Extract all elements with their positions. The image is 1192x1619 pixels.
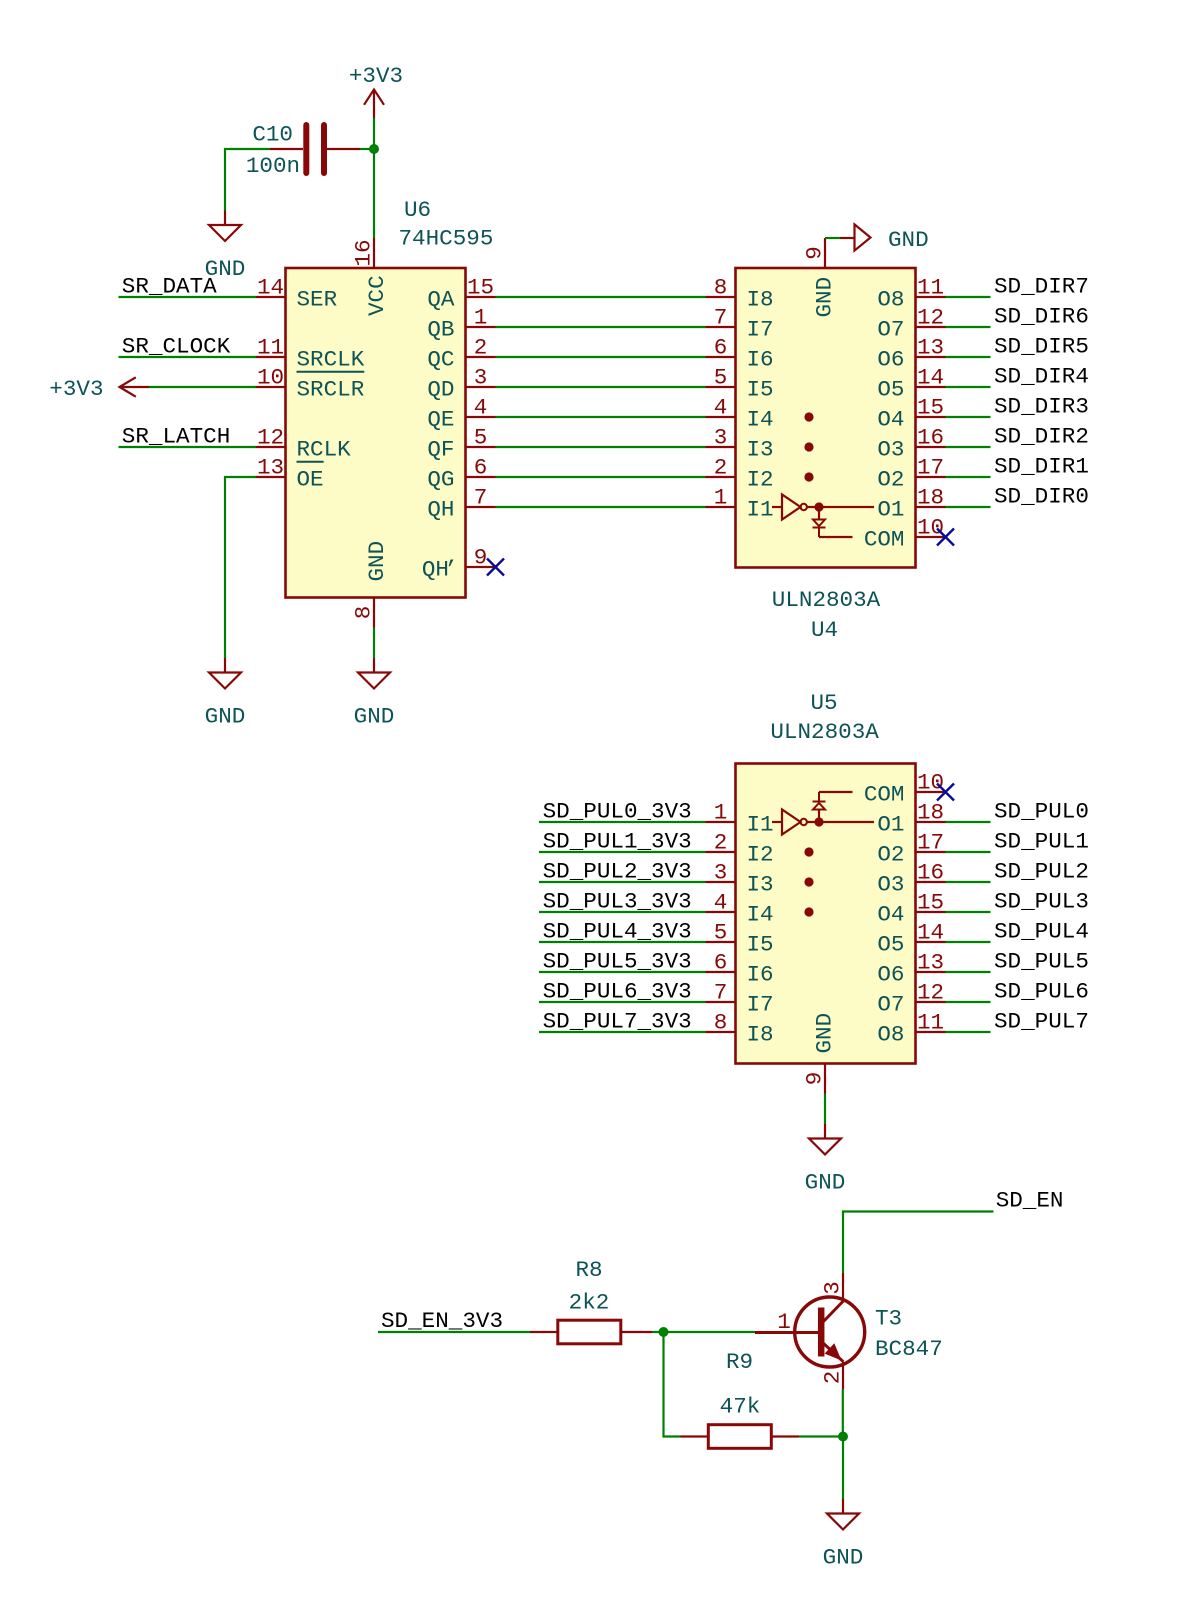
svg-text:15: 15 bbox=[917, 395, 944, 421]
svg-text:QB: QB bbox=[427, 317, 454, 343]
junction +3V3/C10 bbox=[369, 144, 379, 154]
wire SD_PUL3_3V3 bbox=[539, 911, 706, 913]
svg-text:13: 13 bbox=[917, 950, 944, 976]
svg-text:8: 8 bbox=[714, 1010, 728, 1036]
svg-text:ULN2803A: ULN2803A bbox=[770, 719, 879, 745]
wire QE to U4 I4 bbox=[496, 416, 706, 418]
svg-text:O5: O5 bbox=[877, 932, 904, 958]
svg-text:I5: I5 bbox=[747, 377, 774, 403]
wire SD_PUL0_3V3 bbox=[539, 821, 706, 823]
svg-text:I8: I8 bbox=[747, 287, 774, 313]
U5 pin 16 O3 bbox=[877, 860, 945, 898]
svg-text:SER: SER bbox=[297, 287, 338, 313]
svg-text:5: 5 bbox=[714, 920, 728, 946]
svg-text:18: 18 bbox=[917, 485, 944, 511]
wire SD_PUL6_3V3 bbox=[539, 1001, 706, 1003]
power +3V3 (SRCLR) bbox=[49, 376, 149, 402]
svg-text:O4: O4 bbox=[877, 902, 904, 928]
svg-text:OE: OE bbox=[297, 467, 324, 493]
wire QH to U4 I1 bbox=[496, 506, 706, 508]
svg-text:SRCLK: SRCLK bbox=[297, 347, 365, 373]
svg-text:6: 6 bbox=[714, 335, 728, 361]
svg-text:SD_PUL5: SD_PUL5 bbox=[994, 949, 1089, 975]
svg-text:O8: O8 bbox=[877, 287, 904, 313]
U4 driver symbol (inverter with diode) bbox=[772, 495, 874, 538]
svg-text:18: 18 bbox=[917, 800, 944, 826]
svg-text:5: 5 bbox=[474, 425, 488, 451]
svg-text:I2: I2 bbox=[747, 842, 774, 868]
svg-text:SD_DIR5: SD_DIR5 bbox=[994, 334, 1089, 360]
wire SRCLR to +3V3 bbox=[149, 386, 256, 388]
svg-text:QC: QC bbox=[427, 347, 454, 373]
U5 pin 13 O6 bbox=[877, 950, 945, 988]
svg-text:O1: O1 bbox=[877, 497, 904, 523]
svg-text:COM: COM bbox=[864, 782, 905, 808]
svg-text:SD_PUL4_3V3: SD_PUL4_3V3 bbox=[543, 919, 692, 945]
wire SD_PUL7_3V3 bbox=[539, 1031, 706, 1033]
svg-text:3: 3 bbox=[820, 1281, 846, 1295]
IC U6 74HC595 body bbox=[286, 268, 466, 598]
svg-text:14: 14 bbox=[917, 920, 944, 946]
svg-text:SD_PUL3_3V3: SD_PUL3_3V3 bbox=[543, 889, 692, 915]
wire SD_PUL2_3V3 bbox=[539, 881, 706, 883]
wire QC to U4 I6 bbox=[496, 356, 706, 358]
wire SD_PUL2 bbox=[946, 881, 991, 883]
svg-text:I1: I1 bbox=[747, 497, 774, 523]
wire SD_DIR2 bbox=[946, 446, 991, 448]
U5 pin 15 O4 bbox=[877, 890, 945, 928]
svg-text:GND: GND bbox=[812, 1013, 838, 1054]
svg-text:8: 8 bbox=[714, 275, 728, 301]
svg-text:8: 8 bbox=[351, 606, 377, 620]
svg-text:12: 12 bbox=[257, 425, 284, 451]
wire SD_DIR1 bbox=[946, 476, 991, 478]
svg-text:16: 16 bbox=[351, 239, 377, 266]
svg-text:QG: QG bbox=[427, 467, 454, 493]
wire SD_DIR4 bbox=[946, 386, 991, 388]
U6 pin 5 QF bbox=[427, 425, 495, 463]
svg-text:SD_PUL0_3V3: SD_PUL0_3V3 bbox=[543, 799, 692, 825]
U4 pin 3 I3 bbox=[706, 425, 774, 463]
U5 pin 11 O8 bbox=[877, 1010, 945, 1048]
svg-text:2k2: 2k2 bbox=[569, 1290, 610, 1316]
svg-text:SR_DATA: SR_DATA bbox=[122, 274, 217, 300]
U5 pin 18 O1 bbox=[877, 800, 945, 838]
svg-text:47k: 47k bbox=[720, 1394, 761, 1420]
svg-text:I4: I4 bbox=[747, 902, 774, 928]
wire +3V3 vertical to U6 VCC bbox=[373, 118, 375, 238]
U4 pin 16 O3 bbox=[877, 425, 945, 463]
U4 pin 4 I4 bbox=[706, 395, 774, 433]
svg-text:SD_PUL6: SD_PUL6 bbox=[994, 979, 1089, 1005]
U4 pin 13 O6 bbox=[877, 335, 945, 373]
U6 pin 13 OE bbox=[256, 455, 324, 493]
svg-text:11: 11 bbox=[257, 335, 284, 361]
svg-text:SRCLR: SRCLR bbox=[297, 377, 365, 403]
svg-text:9: 9 bbox=[802, 246, 828, 260]
U4 pin 1 I1 bbox=[706, 485, 774, 523]
svg-text:12: 12 bbox=[917, 980, 944, 1006]
U4 pin 5 I5 bbox=[706, 365, 774, 403]
svg-text:O3: O3 bbox=[877, 437, 904, 463]
svg-text:10: 10 bbox=[917, 515, 944, 541]
U6 pin 7 QH bbox=[427, 485, 495, 523]
svg-text:O6: O6 bbox=[877, 347, 904, 373]
svg-text:6: 6 bbox=[474, 455, 488, 481]
U5 pin 12 O7 bbox=[877, 980, 945, 1018]
U6 pin 10 SRCLR bbox=[256, 365, 365, 403]
wire junction to GND bbox=[842, 1437, 844, 1500]
svg-text:2: 2 bbox=[474, 335, 488, 361]
svg-text:11: 11 bbox=[917, 275, 944, 301]
U5 pin 5 I5 bbox=[706, 920, 774, 958]
U4 pin 9 GND bbox=[802, 238, 828, 268]
wire SD_EN_3V3 to R8 bbox=[378, 1331, 530, 1333]
U5 pin 4 I4 bbox=[706, 890, 774, 928]
svg-text:14: 14 bbox=[257, 275, 284, 301]
svg-text:I1: I1 bbox=[747, 812, 774, 838]
power +3V3 (top) bbox=[349, 63, 403, 118]
wire C10 right to +3V3 bbox=[360, 148, 374, 150]
ground U5 pin 9 bbox=[805, 1124, 846, 1196]
svg-text:I4: I4 bbox=[747, 407, 774, 433]
wire SD_PUL7 bbox=[946, 1031, 991, 1033]
U6 pin 16 VCC bbox=[351, 238, 377, 268]
U5 pin 10 COM bbox=[864, 770, 946, 808]
U4 pin 18 O1 bbox=[877, 485, 945, 523]
svg-text:SD_DIR2: SD_DIR2 bbox=[994, 424, 1089, 450]
svg-text:U5: U5 bbox=[810, 690, 837, 716]
svg-text:15: 15 bbox=[467, 275, 494, 301]
svg-text:U6: U6 bbox=[404, 197, 431, 223]
svg-text:SD_EN_3V3: SD_EN_3V3 bbox=[381, 1308, 503, 1334]
wire SD_PUL0 bbox=[946, 821, 991, 823]
wire SD_DIR6 bbox=[946, 326, 991, 328]
wire QG to U4 I2 bbox=[496, 476, 706, 478]
U6 pin 15 QA bbox=[427, 275, 495, 313]
svg-text:COM: COM bbox=[864, 527, 905, 553]
wire SD_PUL6 bbox=[946, 1001, 991, 1003]
svg-text:17: 17 bbox=[917, 830, 944, 856]
U5 pin 3 I3 bbox=[706, 860, 774, 898]
U6 pin 9 QH' bbox=[422, 545, 496, 583]
U5 pin 14 O5 bbox=[877, 920, 945, 958]
U5 pin 8 I8 bbox=[706, 1010, 774, 1048]
svg-text:9: 9 bbox=[802, 1072, 828, 1086]
resistor R9 bbox=[681, 1425, 800, 1449]
U5 pin 9 GND bbox=[802, 1064, 828, 1094]
svg-text:1: 1 bbox=[474, 305, 488, 331]
wire SD_PUL5_3V3 bbox=[539, 971, 706, 973]
ground U6 pin 8 bbox=[354, 658, 395, 730]
wire emitter to junction bbox=[842, 1390, 844, 1437]
U6 pin 2 QC bbox=[427, 335, 495, 373]
svg-text:QH: QH bbox=[427, 497, 454, 523]
svg-text:R9: R9 bbox=[726, 1349, 753, 1375]
IC U4 ULN2803A body bbox=[736, 268, 916, 568]
svg-text:4: 4 bbox=[714, 890, 728, 916]
svg-text:SD_PUL5_3V3: SD_PUL5_3V3 bbox=[543, 949, 692, 975]
svg-text:I7: I7 bbox=[747, 992, 774, 1018]
wire SR_CLOCK bbox=[119, 356, 257, 358]
U4 pin 14 O5 bbox=[877, 365, 945, 403]
junction R8/R9 bbox=[659, 1327, 669, 1337]
wire R8 to T3 base bbox=[652, 1331, 755, 1333]
svg-text:74HC595: 74HC595 bbox=[399, 226, 494, 252]
ground T3 emitter bbox=[823, 1499, 864, 1571]
wire U4 pin 9 to GND flag bbox=[825, 237, 840, 239]
svg-text:1: 1 bbox=[777, 1309, 791, 1335]
wire QD to U4 I5 bbox=[496, 386, 706, 388]
svg-text:U4: U4 bbox=[811, 617, 838, 643]
wire SD_PUL3 bbox=[946, 911, 991, 913]
resistor R8 bbox=[530, 1320, 652, 1344]
svg-text:16: 16 bbox=[917, 860, 944, 886]
svg-text:SD_DIR3: SD_DIR3 bbox=[994, 394, 1089, 420]
svg-text:GND: GND bbox=[823, 1545, 864, 1571]
wire SD_DIR0 bbox=[946, 506, 991, 508]
wire QA to U4 I8 bbox=[496, 296, 706, 298]
svg-text:16: 16 bbox=[917, 425, 944, 451]
svg-text:13: 13 bbox=[917, 335, 944, 361]
svg-text:+3V3: +3V3 bbox=[49, 376, 103, 402]
wire C10 left to GND bbox=[225, 149, 270, 211]
U5 ellipsis dots bbox=[804, 847, 813, 916]
svg-text:GND: GND bbox=[364, 541, 390, 582]
svg-text:O2: O2 bbox=[877, 842, 904, 868]
svg-text:SD_DIR4: SD_DIR4 bbox=[994, 364, 1089, 390]
svg-text:4: 4 bbox=[714, 395, 728, 421]
svg-text:5: 5 bbox=[714, 365, 728, 391]
U4 pin 10 COM bbox=[864, 515, 946, 553]
U6 pin 1 QB bbox=[427, 305, 495, 343]
wire SD_DIR7 bbox=[946, 296, 991, 298]
svg-text:O5: O5 bbox=[877, 377, 904, 403]
svg-text:3: 3 bbox=[714, 860, 728, 886]
svg-text:7: 7 bbox=[474, 485, 488, 511]
svg-text:SD_DIR6: SD_DIR6 bbox=[994, 304, 1089, 330]
svg-text:6: 6 bbox=[714, 950, 728, 976]
U4 pin 6 I6 bbox=[706, 335, 774, 373]
svg-text:14: 14 bbox=[917, 365, 944, 391]
svg-text:SD_PUL0: SD_PUL0 bbox=[994, 799, 1089, 825]
transistor T3 BC847 bbox=[755, 1273, 865, 1390]
ground OE bbox=[205, 658, 246, 730]
IC U5 ULN2803A body bbox=[736, 764, 916, 1064]
svg-text:4: 4 bbox=[474, 395, 488, 421]
svg-text:RCLK: RCLK bbox=[297, 437, 352, 463]
svg-text:O1: O1 bbox=[877, 812, 904, 838]
svg-text:SD_PUL1_3V3: SD_PUL1_3V3 bbox=[543, 829, 692, 855]
svg-text:C10: C10 bbox=[252, 122, 293, 148]
svg-text:15: 15 bbox=[917, 890, 944, 916]
wire R9 to emitter node bbox=[799, 1435, 843, 1437]
svg-text:SR_CLOCK: SR_CLOCK bbox=[122, 334, 231, 360]
svg-text:QA: QA bbox=[427, 287, 455, 313]
svg-text:I6: I6 bbox=[747, 962, 774, 988]
U6 pin 8 GND bbox=[351, 598, 377, 628]
svg-text:1: 1 bbox=[714, 485, 728, 511]
U6 pin 11 SRCLK bbox=[256, 335, 365, 373]
U4 pin 8 I8 bbox=[706, 275, 774, 313]
svg-text:I3: I3 bbox=[747, 872, 774, 898]
svg-text:I8: I8 bbox=[747, 1022, 774, 1048]
svg-text:I5: I5 bbox=[747, 932, 774, 958]
svg-text:7: 7 bbox=[714, 980, 728, 1006]
svg-text:SD_DIR1: SD_DIR1 bbox=[994, 454, 1089, 480]
U5 pin 6 I6 bbox=[706, 950, 774, 988]
wire SD_DIR3 bbox=[946, 416, 991, 418]
svg-text:GND: GND bbox=[354, 704, 395, 730]
wire SD_PUL5 bbox=[946, 971, 991, 973]
wire QF to U4 I3 bbox=[496, 446, 706, 448]
svg-text:2: 2 bbox=[820, 1371, 846, 1385]
svg-text:GND: GND bbox=[812, 277, 838, 318]
svg-text:SD_PUL6_3V3: SD_PUL6_3V3 bbox=[543, 979, 692, 1005]
svg-text:100n: 100n bbox=[246, 153, 300, 179]
svg-text:O3: O3 bbox=[877, 872, 904, 898]
svg-text:13: 13 bbox=[257, 455, 284, 481]
wire junction down to R9 bbox=[664, 1332, 681, 1437]
no-connect U6 pin 9 bbox=[487, 559, 504, 576]
wire SD_PUL4 bbox=[946, 941, 991, 943]
svg-text:3: 3 bbox=[474, 365, 488, 391]
svg-text:BC847: BC847 bbox=[875, 1336, 943, 1362]
wire U5 pin 9 to GND bbox=[824, 1094, 826, 1125]
U4 pin 15 O4 bbox=[877, 395, 945, 433]
svg-text:SD_PUL7_3V3: SD_PUL7_3V3 bbox=[543, 1009, 692, 1035]
svg-text:SD_DIR0: SD_DIR0 bbox=[994, 484, 1089, 510]
svg-text:2: 2 bbox=[714, 830, 728, 856]
svg-text:SD_DIR7: SD_DIR7 bbox=[994, 274, 1089, 300]
wire SR_LATCH bbox=[119, 446, 257, 448]
wire SD_DIR5 bbox=[946, 356, 991, 358]
wire SR_DATA bbox=[119, 296, 257, 298]
no-connect U5 pin 10 bbox=[937, 784, 954, 801]
U5 pin 1 I1 bbox=[706, 800, 774, 838]
svg-text:SD_PUL3: SD_PUL3 bbox=[994, 889, 1089, 915]
svg-text:QF: QF bbox=[427, 437, 454, 463]
svg-text:O8: O8 bbox=[877, 1022, 904, 1048]
svg-text:7: 7 bbox=[714, 305, 728, 331]
svg-text:I3: I3 bbox=[747, 437, 774, 463]
svg-text:O7: O7 bbox=[877, 317, 904, 343]
U4 pin 2 I2 bbox=[706, 455, 774, 493]
svg-text:10: 10 bbox=[917, 770, 944, 796]
ground C10 bbox=[205, 211, 246, 283]
wire U6 pin 8 to GND bbox=[373, 628, 375, 659]
svg-text:GND: GND bbox=[805, 1170, 846, 1196]
svg-text:O4: O4 bbox=[877, 407, 904, 433]
svg-text:SD_PUL4: SD_PUL4 bbox=[994, 919, 1089, 945]
svg-text:SD_PUL7: SD_PUL7 bbox=[994, 1009, 1089, 1035]
U4 pin 7 I7 bbox=[706, 305, 774, 343]
capacitor C10 bbox=[270, 125, 360, 173]
svg-text:SR_LATCH: SR_LATCH bbox=[122, 424, 230, 450]
svg-text:’: ’ bbox=[444, 557, 458, 583]
svg-text:T3: T3 bbox=[875, 1306, 902, 1332]
svg-text:1: 1 bbox=[714, 800, 728, 826]
svg-text:11: 11 bbox=[917, 1010, 944, 1036]
wire SD_PUL1 bbox=[946, 851, 991, 853]
junction emitter/R9 bbox=[838, 1432, 848, 1442]
svg-text:SD_PUL1: SD_PUL1 bbox=[994, 829, 1089, 855]
wire OE to GND bbox=[225, 477, 256, 658]
svg-text:SD_EN: SD_EN bbox=[996, 1188, 1064, 1214]
global label GND (U4 pin 9) bbox=[840, 224, 929, 253]
svg-text:I2: I2 bbox=[747, 467, 774, 493]
U5 pin 2 I2 bbox=[706, 830, 774, 868]
svg-text:QD: QD bbox=[427, 377, 454, 403]
no-connect U4 pin 10 bbox=[937, 529, 954, 546]
U6 pin 6 QG bbox=[427, 455, 495, 493]
svg-text:I6: I6 bbox=[747, 347, 774, 373]
U5 driver symbol (inverter with diode) bbox=[772, 792, 874, 835]
svg-text:10: 10 bbox=[257, 365, 284, 391]
svg-text:O7: O7 bbox=[877, 992, 904, 1018]
svg-text:3: 3 bbox=[714, 425, 728, 451]
svg-text:I7: I7 bbox=[747, 317, 774, 343]
svg-text:17: 17 bbox=[917, 455, 944, 481]
svg-text:9: 9 bbox=[474, 545, 488, 571]
wire SD_EN bbox=[843, 1212, 994, 1274]
svg-text:SD_PUL2_3V3: SD_PUL2_3V3 bbox=[543, 859, 692, 885]
svg-text:+3V3: +3V3 bbox=[349, 63, 403, 89]
svg-text:SD_PUL2: SD_PUL2 bbox=[994, 859, 1089, 885]
U6 pin 12 RCLK bbox=[256, 425, 352, 463]
wire SD_PUL1_3V3 bbox=[539, 851, 706, 853]
svg-text:VCC: VCC bbox=[364, 275, 390, 316]
U5 pin 7 I7 bbox=[706, 980, 774, 1018]
wire SD_PUL4_3V3 bbox=[539, 941, 706, 943]
svg-text:GND: GND bbox=[888, 227, 929, 253]
svg-text:R8: R8 bbox=[575, 1257, 602, 1283]
U4 pin 17 O2 bbox=[877, 455, 945, 493]
svg-text:O6: O6 bbox=[877, 962, 904, 988]
wire QB to U4 I7 bbox=[496, 326, 706, 328]
svg-text:2: 2 bbox=[714, 455, 728, 481]
U4 pin 12 O7 bbox=[877, 305, 945, 343]
U6 pin 14 SER bbox=[256, 275, 338, 313]
U6 pin 3 QD bbox=[427, 365, 495, 403]
svg-text:QE: QE bbox=[427, 407, 454, 433]
U5 pin 17 O2 bbox=[877, 830, 945, 868]
svg-text:GND: GND bbox=[205, 704, 246, 730]
U4 ellipsis dots bbox=[804, 412, 813, 481]
svg-text:12: 12 bbox=[917, 305, 944, 331]
svg-text:O2: O2 bbox=[877, 467, 904, 493]
U4 pin 11 O8 bbox=[877, 275, 945, 313]
svg-text:ULN2803A: ULN2803A bbox=[772, 587, 881, 613]
U6 pin 4 QE bbox=[427, 395, 495, 433]
